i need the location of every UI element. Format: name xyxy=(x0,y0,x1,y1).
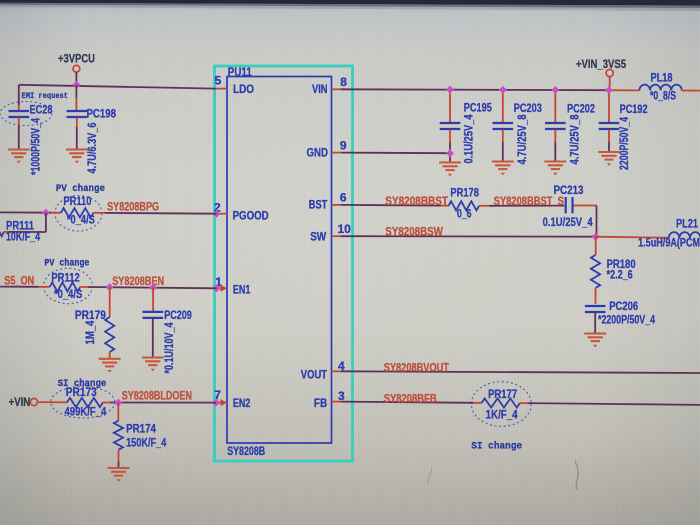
power symbol +VIN_3VS5 xyxy=(606,69,613,76)
junction xyxy=(551,86,559,94)
IC U11 body SY8208B xyxy=(227,77,332,444)
svg-text:PR110: PR110 xyxy=(63,194,91,208)
wire S5_ON xyxy=(0,286,38,288)
pin 4 stub xyxy=(332,370,342,372)
svg-text:4.7U/25V_8: 4.7U/25V_8 xyxy=(515,114,529,164)
wire xyxy=(105,212,217,215)
svg-text:PR173: PR173 xyxy=(66,385,97,399)
svg-text:SY8208BVOUT: SY8208BVOUT xyxy=(384,361,450,375)
ground xyxy=(66,148,88,150)
resistor PR174 xyxy=(117,403,119,421)
svg-text:PC195: PC195 xyxy=(464,101,492,115)
svg-text:0_6: 0_6 xyxy=(457,207,472,221)
pin 1 stub with input arrow xyxy=(217,287,227,289)
svg-text:0.1U/25V_4: 0.1U/25V_4 xyxy=(543,215,593,229)
junction xyxy=(446,86,454,94)
svg-text:PC198: PC198 xyxy=(87,106,117,120)
power symbol +VIN xyxy=(30,398,37,405)
wire FB xyxy=(341,402,474,403)
svg-text:6: 6 xyxy=(340,191,347,205)
pin 9 stub xyxy=(332,152,342,154)
svg-text:+VIN_3VS5: +VIN_3VS5 xyxy=(576,57,626,71)
svg-text:SY8208BFB: SY8208BFB xyxy=(384,392,437,406)
svg-text:PC192: PC192 xyxy=(620,102,648,116)
wire xyxy=(490,205,565,207)
wire to PL21 xyxy=(596,237,669,238)
svg-text:5: 5 xyxy=(215,74,222,88)
IC U11 selection box (teal) xyxy=(215,66,353,461)
svg-text:SI change: SI change xyxy=(471,441,522,453)
svg-text:+VIN: +VIN xyxy=(9,395,31,409)
svg-text:8: 8 xyxy=(340,75,347,89)
svg-text:PC209: PC209 xyxy=(164,308,192,322)
wire xyxy=(682,90,700,92)
capacitor PC195 xyxy=(449,90,451,123)
svg-text:2200P/50V_4: 2200P/50V_4 xyxy=(617,117,631,170)
junction xyxy=(149,283,157,291)
pin 6 stub xyxy=(332,204,342,206)
svg-text:PU11: PU11 xyxy=(228,65,252,79)
ground xyxy=(142,356,164,358)
ground xyxy=(584,332,606,334)
svg-text:VIN: VIN xyxy=(312,82,328,96)
capacitor EC28 xyxy=(18,85,20,105)
ground xyxy=(492,160,514,162)
svg-text:SY8208BSW: SY8208BSW xyxy=(385,225,443,239)
capacitor PC198 xyxy=(75,85,77,98)
svg-text:*2.2_6: *2.2_6 xyxy=(607,268,633,282)
wire GND to PC195 xyxy=(341,152,450,155)
pin 7 stub with input arrow xyxy=(216,402,227,404)
pin 5 stub xyxy=(217,88,228,90)
dust speck xyxy=(428,468,432,483)
wire VIN bus xyxy=(341,88,610,91)
wire BST xyxy=(341,204,441,207)
resistor PR177 xyxy=(471,382,531,427)
wire xyxy=(574,205,597,207)
pin 2 stub xyxy=(217,213,228,215)
resistor PR110 xyxy=(55,196,102,232)
svg-text:PR177: PR177 xyxy=(488,387,517,401)
svg-text:9: 9 xyxy=(340,139,347,153)
svg-text:SY8208BBST: SY8208BBST xyxy=(385,194,448,208)
svg-text:EC28: EC28 xyxy=(30,103,53,117)
junction xyxy=(72,81,80,89)
svg-text:PGOOD: PGOOD xyxy=(233,209,269,223)
junction xyxy=(605,86,613,94)
svg-text:PL21: PL21 xyxy=(676,217,698,231)
resistor PR173 xyxy=(51,386,115,418)
inductor PL18 xyxy=(639,85,681,91)
dust hair mark xyxy=(575,461,578,490)
svg-text:1M_4: 1M_4 xyxy=(83,320,97,344)
ground xyxy=(544,160,566,162)
wire to PL18 xyxy=(610,89,639,91)
ground xyxy=(99,358,121,360)
svg-text:EN2: EN2 xyxy=(233,396,251,410)
svg-text:LDO: LDO xyxy=(233,82,254,96)
svg-text:+3VPCU: +3VPCU xyxy=(58,52,95,66)
capacitor PC206 xyxy=(585,305,606,307)
svg-text:499K/F_4: 499K/F_4 xyxy=(65,405,107,419)
svg-text:10K/F_4: 10K/F_4 xyxy=(6,230,40,244)
wire SW xyxy=(341,235,597,238)
svg-text:SW: SW xyxy=(310,230,327,244)
svg-text:3: 3 xyxy=(338,389,345,403)
svg-text:S5_ON: S5_ON xyxy=(4,274,34,288)
junction xyxy=(592,233,600,241)
junction xyxy=(446,149,454,157)
svg-text:PR174: PR174 xyxy=(126,422,156,436)
svg-text:150K/F_4: 150K/F_4 xyxy=(126,436,166,450)
svg-text:SY8208B: SY8208B xyxy=(227,444,265,458)
svg-text:SY8208BPG: SY8208BPG xyxy=(107,200,159,214)
svg-text:FB: FB xyxy=(314,396,327,410)
resistor PR111 xyxy=(45,213,47,232)
svg-text:*0_4/S: *0_4/S xyxy=(54,287,82,301)
svg-text:PC213: PC213 xyxy=(554,183,584,197)
junction xyxy=(42,209,50,217)
capacitor PC203 xyxy=(502,90,504,123)
svg-text:PR179: PR179 xyxy=(75,308,106,322)
svg-text:PR112: PR112 xyxy=(51,271,80,285)
pin 10 stub xyxy=(332,235,342,237)
svg-text:PR178: PR178 xyxy=(450,185,479,199)
svg-text:EN1: EN1 xyxy=(233,282,251,296)
capacitor PC213 xyxy=(565,197,567,213)
svg-text:4.7U/25V_8: 4.7U/25V_8 xyxy=(568,114,582,164)
ground xyxy=(8,148,30,150)
ground xyxy=(108,467,130,469)
junction xyxy=(106,283,114,291)
svg-text:*0.1U/10V_4: *0.1U/10V_4 xyxy=(162,322,176,373)
wire xyxy=(528,403,700,405)
capacitor PC192 xyxy=(608,90,610,123)
svg-text:BST: BST xyxy=(309,198,328,212)
svg-text:*0_8/S: *0_8/S xyxy=(650,89,676,103)
svg-text:10: 10 xyxy=(338,222,352,236)
svg-text:4.7U/6.3V_6: 4.7U/6.3V_6 xyxy=(85,122,99,173)
wire VOUT xyxy=(341,371,700,373)
junction xyxy=(499,86,507,94)
svg-text:EMI request: EMI request xyxy=(22,91,69,101)
wire PGOOD xyxy=(0,211,51,213)
svg-text:PC202: PC202 xyxy=(567,102,595,116)
resistor PR178 xyxy=(441,205,449,207)
pin 3 stub xyxy=(332,401,342,403)
svg-text:0.1U/25V_4: 0.1U/25V_4 xyxy=(462,114,476,163)
resistor PR112 xyxy=(44,268,93,303)
ground xyxy=(439,161,461,163)
capacitor PC209 xyxy=(152,287,154,312)
inductor PL21 xyxy=(669,232,700,238)
svg-text:PV change: PV change xyxy=(44,258,89,270)
svg-text:VOUT: VOUT xyxy=(301,368,328,382)
wire xyxy=(75,72,77,85)
resistor PR180 xyxy=(595,237,597,255)
wire xyxy=(88,287,217,288)
wire xyxy=(609,77,611,91)
capacitor PC202 xyxy=(554,90,556,123)
svg-text:1K/F_4: 1K/F_4 xyxy=(486,407,518,421)
svg-text:GND: GND xyxy=(307,146,329,160)
svg-text:PC206: PC206 xyxy=(609,299,638,313)
junction xyxy=(114,399,122,407)
svg-text:SY8208BLDOEN: SY8208BLDOEN xyxy=(122,389,192,403)
power symbol +3VPCU xyxy=(73,65,80,72)
svg-text:PC203: PC203 xyxy=(514,101,542,115)
svg-text:SY8208BEN: SY8208BEN xyxy=(112,274,164,288)
svg-text:*0_4/S: *0_4/S xyxy=(67,213,95,227)
pin 8 stub xyxy=(332,88,342,90)
svg-text:*1000P/50V_4: *1000P/50V_4 xyxy=(29,118,43,175)
ground xyxy=(598,151,620,153)
svg-text:1.5uH/9A(PCM: 1.5uH/9A(PCM xyxy=(638,236,700,250)
resistor PR179 xyxy=(109,287,111,317)
wire LDO bus xyxy=(19,85,217,89)
svg-text:PL18: PL18 xyxy=(651,71,673,85)
wire xyxy=(110,402,216,404)
svg-text:*2200P/50V_4: *2200P/50V_4 xyxy=(598,313,655,327)
